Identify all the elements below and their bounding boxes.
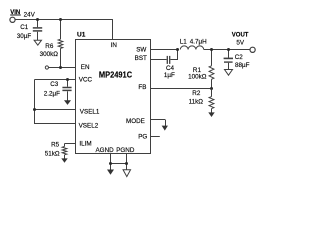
svg-text:PGND: PGND (116, 147, 135, 154)
svg-text:C1: C1 (20, 24, 29, 31)
svg-text:ILIM: ILIM (79, 141, 91, 148)
svg-text:30µF: 30µF (17, 33, 32, 40)
svg-text:MP2491C: MP2491C (99, 69, 132, 79)
svg-text:51kΩ: 51kΩ (45, 150, 60, 157)
svg-text:PG: PG (138, 133, 147, 140)
svg-text:R2: R2 (192, 90, 201, 97)
svg-text:24V: 24V (24, 12, 36, 19)
svg-text:2.2µF: 2.2µF (44, 90, 60, 97)
svg-text:4.7µH: 4.7µH (190, 38, 207, 45)
svg-text:100kΩ: 100kΩ (188, 74, 207, 81)
svg-text:R6: R6 (45, 43, 54, 50)
svg-text:88µF: 88µF (235, 62, 250, 69)
svg-text:EN: EN (81, 64, 90, 71)
svg-text:11kΩ: 11kΩ (189, 99, 204, 106)
svg-text:C4: C4 (166, 65, 175, 72)
svg-text:FB: FB (138, 84, 146, 91)
svg-text:300kΩ: 300kΩ (40, 51, 59, 58)
svg-text:1µF: 1µF (164, 72, 175, 79)
svg-text:VSEL2: VSEL2 (79, 123, 99, 130)
svg-text:SW: SW (136, 46, 146, 53)
svg-text:VCC: VCC (79, 77, 93, 84)
svg-text:IN: IN (111, 42, 118, 49)
svg-text:AGND: AGND (95, 147, 114, 154)
svg-text:C2: C2 (235, 54, 244, 61)
svg-text:VOUT: VOUT (232, 33, 249, 39)
svg-text:R5: R5 (51, 141, 60, 148)
svg-text:L1: L1 (180, 38, 188, 45)
svg-text:C3: C3 (50, 81, 59, 88)
svg-text:MODE: MODE (126, 118, 145, 125)
svg-text:5V: 5V (236, 40, 245, 47)
svg-text:BST: BST (135, 55, 147, 62)
svg-text:VSEL1: VSEL1 (80, 109, 100, 116)
svg-text:U1: U1 (77, 31, 86, 38)
